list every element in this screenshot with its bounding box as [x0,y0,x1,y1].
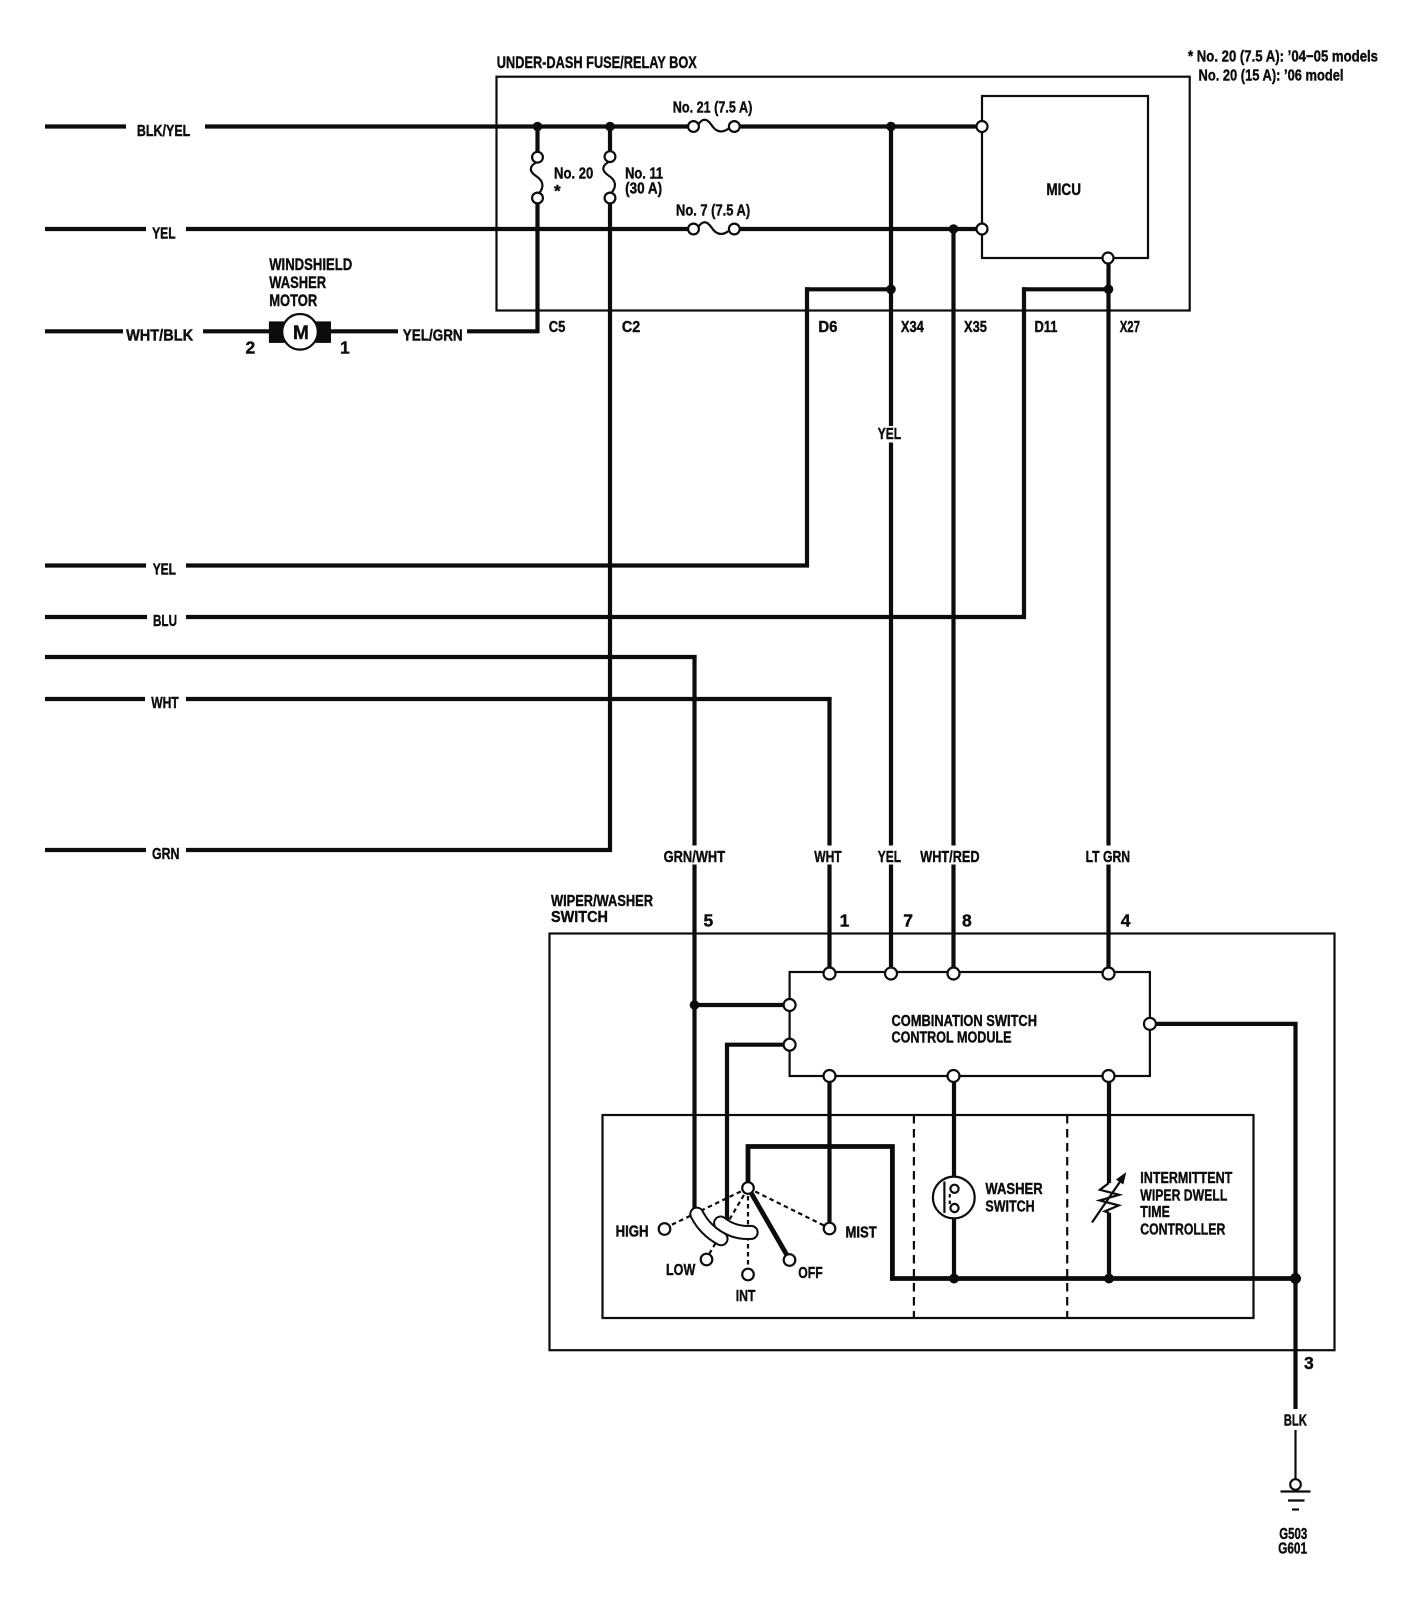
wire X34 vertical BLK/YEL down to module pin 7 [889,127,893,969]
MICU pin YEL [977,224,988,235]
fuse No.20 end circles [532,152,543,163]
svg-text:BLU: BLU [153,613,177,630]
rotary switch dashed ray to LOW [708,1188,748,1256]
svg-text:CONTROL MODULE: CONTROL MODULE [892,1030,1012,1047]
node junction BLK/YEL x C2 [605,122,615,132]
dwell controller arrow [1092,1181,1121,1223]
svg-text:7: 7 [903,911,913,931]
svg-text:LT GRN: LT GRN [1086,849,1131,866]
label wire LT GRN [1083,846,1134,865]
wire D6 jog to X34 [805,287,891,291]
svg-text:D11: D11 [1035,319,1058,336]
svg-text:X35: X35 [964,319,987,336]
module pin circles top [824,968,836,980]
wire WHT/BLK to motor pin 2 [203,329,270,333]
ground G503/G601 circle [1290,1479,1301,1490]
intermittent wiper dwell time controller R1 zigzag [1100,1183,1120,1213]
windshield washer motor M1 left brush [269,321,285,343]
node junction D11 jog x X27 [1104,285,1114,295]
under-dash fuse/relay box [497,77,1190,311]
label wire WHT pin1 [811,846,845,865]
svg-text:No. 20: No. 20 [554,165,593,182]
svg-text:G601: G601 [1278,1541,1307,1558]
wire YEL row main to fuse No.7 [186,227,689,231]
fuse No.7 end circles [688,224,699,235]
wire GRN/WHT pin5 vertical down into switch [692,655,696,1210]
wire YEL row-4 to D6 corner [186,563,809,567]
washer switch contact top [950,1185,958,1193]
svg-text:LOW: LOW [666,1262,696,1279]
rotary contact OFF [784,1254,796,1266]
wire module bottom pin3 down to dwell controller [1107,1082,1111,1183]
wire D6 vertical up to jog row [805,287,809,567]
rotary contact INT [742,1269,754,1281]
svg-text:WIPER/WASHER: WIPER/WASHER [551,893,653,910]
svg-text:MOTOR: MOTOR [269,291,317,310]
rotary switch pivot [742,1182,754,1194]
label wire YEL on X34 column [875,426,905,443]
svg-text:SWITCH: SWITCH [985,1199,1034,1216]
wire C2 vertical from BLK/YEL junction through fuse No.11 down to GRN row [608,127,612,153]
windshield washer motor M1 right brush [316,321,332,343]
svg-text:YEL: YEL [152,226,176,243]
wire WHT row left stub [45,697,145,701]
svg-text:1: 1 [340,338,350,358]
wire BLK/YEL row main to fuse No.21 [205,124,689,128]
washer switch contact bottom [950,1204,958,1212]
rotary contact HIGH [659,1223,671,1235]
svg-text:WHT: WHT [814,849,842,866]
wire BLU row left stub [45,615,147,619]
svg-text:TIME: TIME [1140,1204,1170,1221]
svg-text:WHT: WHT [151,695,179,712]
svg-text:No. 21 (7.5 A): No. 21 (7.5 A) [673,100,753,117]
svg-text:D6: D6 [818,319,837,336]
wire GRN row left stub [45,848,146,852]
node junction pin5 x module branch [690,1000,700,1010]
svg-text:No. 7 (7.5 A): No. 7 (7.5 A) [676,202,750,219]
node junction YEL x X35 [949,224,959,234]
rotary switch dashed ray to INT [747,1188,749,1270]
rotary contact LOW [701,1254,713,1266]
rotary switch dashed ray to MIST [748,1188,827,1227]
ground bar 3 [1292,1508,1299,1510]
wire BLU row to D11 corner [186,615,1026,619]
washer switch SW2 body [933,1177,975,1219]
module pin circles bottom [824,1070,836,1082]
svg-text:WHT/RED: WHT/RED [920,849,979,866]
MICU pin BLK/YEL [977,121,988,132]
svg-text:MIST: MIST [846,1225,877,1242]
svg-text:3: 3 [1304,1353,1314,1373]
wire dwell controller to bus [1107,1213,1111,1279]
wire BLK/YEL fuse No.21 to MICU pin [739,124,977,128]
fuse No.7 squiggle [698,222,730,234]
ground bar 2 [1288,1499,1305,1501]
washer switch bar [943,1182,945,1214]
node junction D6 jog x X34 [886,285,896,295]
svg-text:INT: INT [736,1288,756,1305]
MICU pin bottom [1103,253,1114,264]
svg-text:4: 4 [1121,911,1131,931]
svg-text:1: 1 [840,911,850,931]
svg-text:No. 20 (15 A): ’06 model: No. 20 (15 A): ’06 model [1199,68,1344,85]
svg-text:WHT/BLK: WHT/BLK [126,327,193,344]
wiper/washer switch outer box [550,934,1335,1351]
rotary switch moving contact arc 2 [714,1217,758,1239]
svg-text:GRN: GRN [152,846,180,863]
svg-text:BLK/YEL: BLK/YEL [137,123,191,140]
svg-text:X27: X27 [1120,319,1140,336]
wire WHT row to pin1 corner [186,699,830,701]
svg-text:YEL: YEL [153,562,176,579]
svg-text:OFF: OFF [798,1265,823,1282]
node junction BLK/YEL x C5 [533,122,543,132]
wire YEL/GRN to C5 corner [467,329,538,333]
node junction washer x bus [949,1274,959,1284]
label wire GRN/WHT [661,846,729,865]
svg-text:BLK: BLK [1284,1413,1308,1430]
wire module left pin B branch [727,1045,784,1221]
svg-text:CONTROLLER: CONTROLLER [1140,1222,1225,1239]
wire YEL fuse No.7 to MICU pin [739,227,977,231]
dashed divider right [1066,1115,1068,1318]
wire pin3 BLK lower stub [1294,1430,1296,1480]
node junction right vertical x bus [1290,1273,1301,1284]
svg-text:YEL: YEL [878,426,901,443]
rotary contact MIST [824,1223,836,1235]
wire WHT/BLK row left stub [45,329,123,333]
label wire WHT/RED [917,846,983,865]
svg-text:INTERMITTENT: INTERMITTENT [1140,1170,1232,1187]
node junction BLK/YEL x X34 [886,122,896,132]
svg-text:YEL: YEL [878,849,901,866]
svg-text:GRN/WHT: GRN/WHT [664,849,726,866]
wire module bottom pin2 down to washer switch [952,1082,956,1186]
label wire YEL pin7 [875,846,905,865]
svg-text:(30 A): (30 A) [625,180,662,197]
svg-text:5: 5 [704,911,714,931]
svg-text:* No. 20 (7.5 A): ’04−05 model: * No. 20 (7.5 A): ’04−05 models [1188,49,1378,66]
wire GRN row to C2 corner [186,848,612,852]
svg-text:COMBINATION SWITCH: COMBINATION SWITCH [892,1013,1038,1030]
svg-text:HIGH: HIGH [616,1224,649,1241]
svg-text:YEL/GRN: YEL/GRN [403,327,463,344]
svg-text:UNDER-DASH FUSE/RELAY BOX: UNDER-DASH FUSE/RELAY BOX [497,53,697,72]
module pin circles left [784,999,796,1011]
windshield washer motor M1 body [282,314,318,350]
wire YEL row left stub [45,227,146,231]
svg-text:WASHER: WASHER [985,1181,1043,1198]
svg-text:X34: X34 [901,319,924,336]
svg-text:2: 2 [246,338,256,358]
wire unlabeled row to pin5 corner [45,657,695,659]
fuse No.11 end circles [605,151,616,162]
wire C5 vertical from BLK/YEL junction through fuse No.20 to YEL/GRN [535,127,539,153]
wire X27 vertical from MICU bottom pin to module pin 4 [1106,263,1110,968]
MICU U1 box [982,96,1148,258]
svg-text:*: * [554,182,561,201]
svg-text:M: M [293,323,309,344]
wire module right pin to right bus corner [1156,1024,1296,1409]
svg-text:SWITCH: SWITCH [551,909,608,926]
fuse No.21 squiggle [698,120,730,132]
wire pin5 branch to module left pin A [695,1003,785,1007]
svg-text:8: 8 [962,911,972,931]
svg-text:MICU: MICU [1046,180,1081,199]
rotary switch arm to OFF [750,1191,788,1257]
rotary switch dashed ray to HIGH [667,1188,748,1227]
ground bar 1 [1281,1490,1311,1492]
rotary switch moving contact arc 1 [690,1208,727,1246]
fuse No.11 squiggle [603,162,615,194]
wire BLK/YEL row left stub [45,124,126,128]
wire YEL row-4 left stub [45,563,146,567]
svg-text:C5: C5 [549,319,566,336]
wire rotary pivot L-line up and over to bus [748,1147,1296,1279]
svg-text:WINDSHIELD: WINDSHIELD [269,255,352,274]
wire WHT pin1 vertical down to module pin 1 [827,697,831,968]
wire module bottom pin1 down to MIST contact [827,1082,831,1223]
svg-text:WASHER: WASHER [269,273,326,292]
svg-text:C2: C2 [622,319,640,336]
wire motor pin 1 to YEL/GRN label [330,329,398,333]
switch detail inner box [603,1115,1254,1318]
wire D11 vertical up to jog row [1022,287,1026,619]
node junction dwell x bus [1104,1274,1114,1284]
combination switch control module box [790,972,1150,1076]
fuse No.21 end circles [688,121,699,132]
svg-text:WIPER DWELL: WIPER DWELL [1140,1188,1227,1205]
wire D11 jog to X27 [1022,287,1109,291]
module pin circle right [1144,1018,1156,1030]
wire washer switch to bus [952,1213,956,1279]
washer switch dashed link [949,1194,951,1205]
dashed divider left [913,1115,915,1318]
fuse No.20 squiggle [531,163,543,195]
wire X35 vertical YEL down to module pin 8 [951,229,955,968]
